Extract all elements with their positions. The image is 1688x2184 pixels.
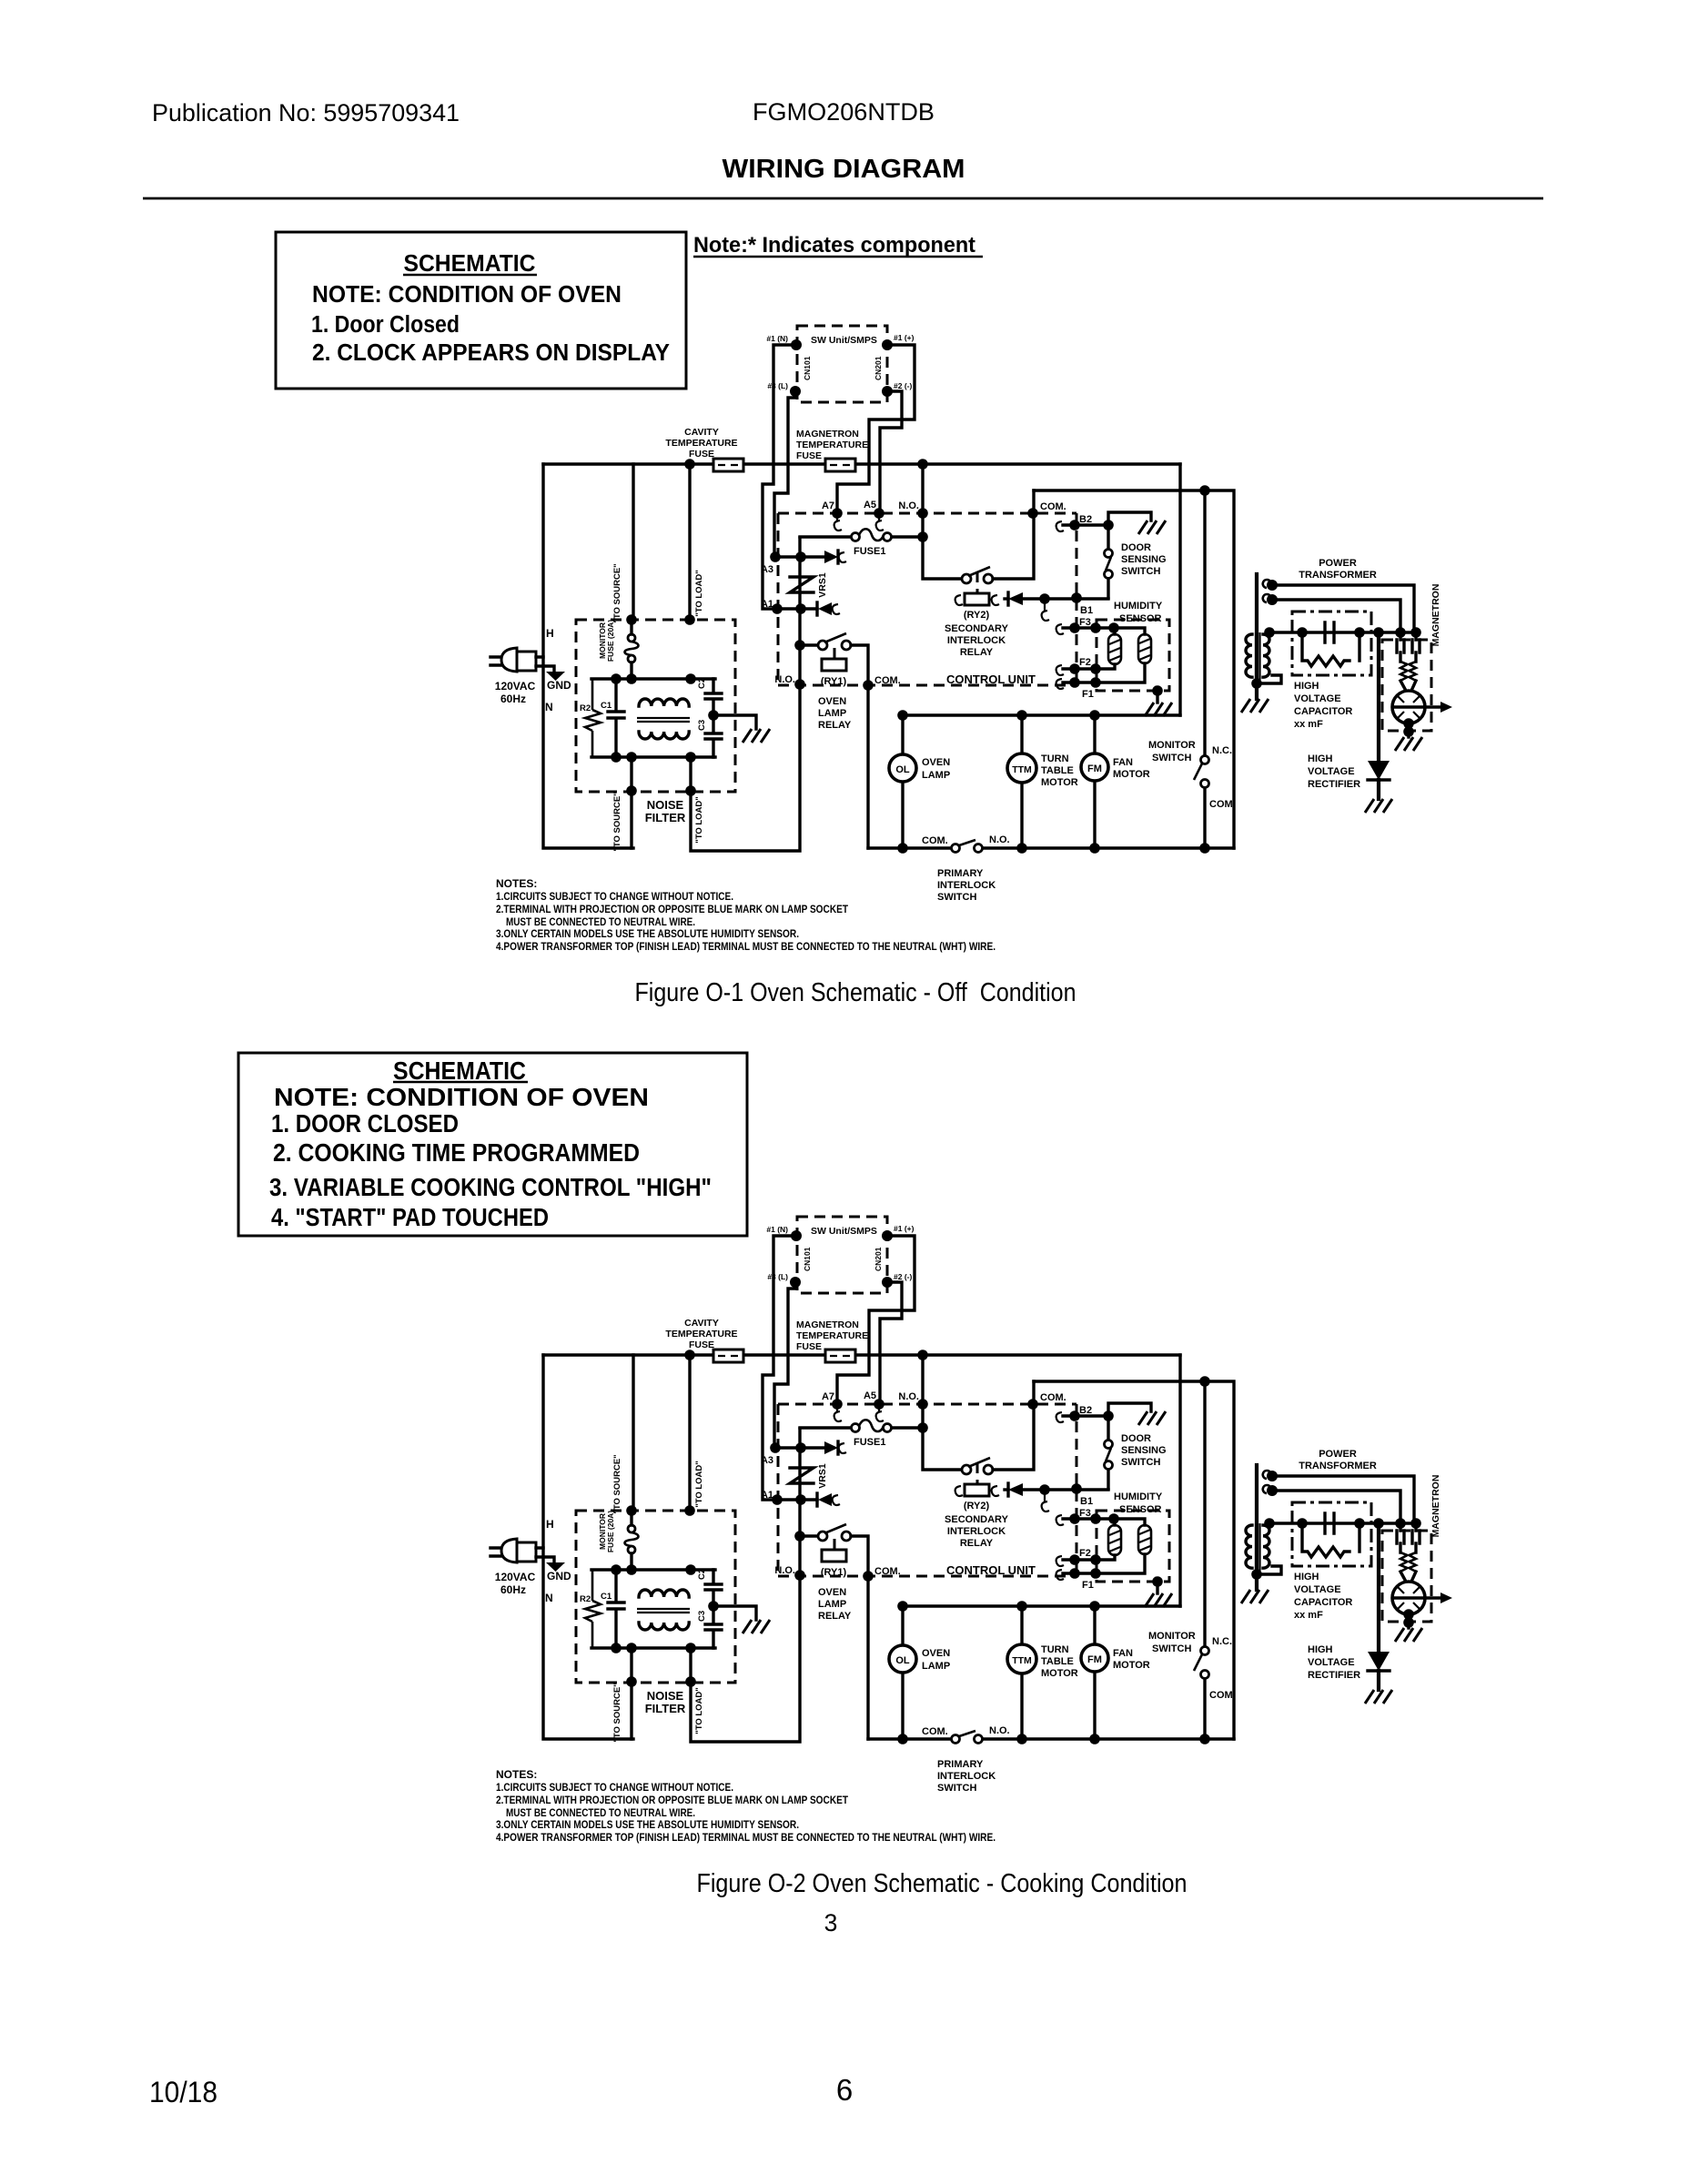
svg-text:Publication No: 5995709341: Publication No: 5995709341 [152,99,460,126]
svg-text:SCHEMATIC: SCHEMATIC [393,1057,526,1085]
svg-text:4. "START" PAD TOUCHED: 4. "START" PAD TOUCHED [271,1203,549,1231]
svg-text:WIRING DIAGRAM: WIRING DIAGRAM [723,155,965,184]
svg-text:Note:* Indicates component: Note:* Indicates component [693,233,975,258]
svg-text:SCHEMATIC: SCHEMATIC [404,251,536,277]
svg-text:2. COOKING TIME PROGRAMMED: 2. COOKING TIME PROGRAMMED [273,1138,640,1167]
svg-text:FGMO206NTDB: FGMO206NTDB [753,98,935,126]
svg-text:10/18: 10/18 [149,2076,217,2108]
svg-text:NOTE: CONDITION OF OVEN: NOTE: CONDITION OF OVEN [312,282,622,308]
svg-text:Figure O-1 Oven Schematic - Of: Figure O-1 Oven Schematic - Off Conditio… [635,978,1076,1007]
svg-text:2. CLOCK APPEARS ON DISPLAY: 2. CLOCK APPEARS ON DISPLAY [312,340,670,366]
svg-text:1. Door Closed: 1. Door Closed [311,312,460,338]
svg-text:6: 6 [836,2073,853,2107]
svg-text:3. VARIABLE COOKING CONTROL "H: 3. VARIABLE COOKING CONTROL "HIGH" [269,1173,712,1201]
svg-text:3: 3 [824,1909,838,1936]
svg-text:1. DOOR CLOSED: 1. DOOR CLOSED [271,1109,459,1137]
svg-text:Figure O-2 Oven Schematic - Co: Figure O-2 Oven Schematic - Cooking Cond… [697,1869,1188,1898]
svg-text:NOTE: CONDITION OF OVEN: NOTE: CONDITION OF OVEN [274,1083,649,1111]
